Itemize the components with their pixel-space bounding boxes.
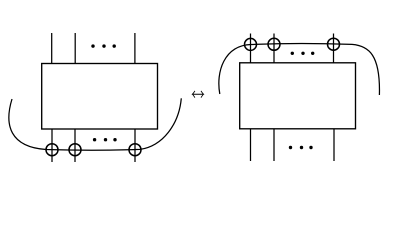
crossed-circle node X6 on right top wire 3	[328, 38, 340, 50]
ellipsis top of right box	[291, 52, 315, 55]
wire left top 2	[74, 33, 76, 64]
wire right bottom 1	[250, 129, 252, 161]
ellipsis bottom of right box	[289, 146, 313, 149]
wire left bottom 1	[51, 129, 53, 162]
wire right bottom 2	[273, 129, 275, 161]
wire left top 3	[134, 33, 136, 64]
crossed-circle node X2 on left bottom wire 2	[69, 144, 81, 156]
wire right top 3	[333, 34, 335, 63]
ellipsis bottom of left box	[93, 138, 117, 141]
ellipsis top of left box	[91, 44, 116, 47]
wire left bottom 3	[134, 129, 136, 162]
equivalence arrow between figures	[192, 91, 203, 98]
long bent wire sweeping over right box	[219, 44, 380, 95]
wire left bottom 2	[74, 129, 76, 162]
tensor box U (left)	[42, 64, 158, 130]
wire right top 1	[250, 34, 252, 63]
crossed-circle node X4 on right top wire 1	[245, 38, 257, 50]
crossed-circle node X5 on right top wire 2	[268, 38, 280, 50]
tensor box V (right)	[240, 63, 356, 129]
wire right top 2	[273, 34, 275, 63]
wire right bottom 3	[333, 129, 335, 161]
long bent wire sweeping under left box	[9, 98, 181, 150]
wire left top 1	[51, 33, 53, 64]
crossed-circle node X3 on left bottom wire 3	[129, 144, 141, 156]
crossed-circle node X1 on left bottom wire 1	[46, 144, 58, 156]
